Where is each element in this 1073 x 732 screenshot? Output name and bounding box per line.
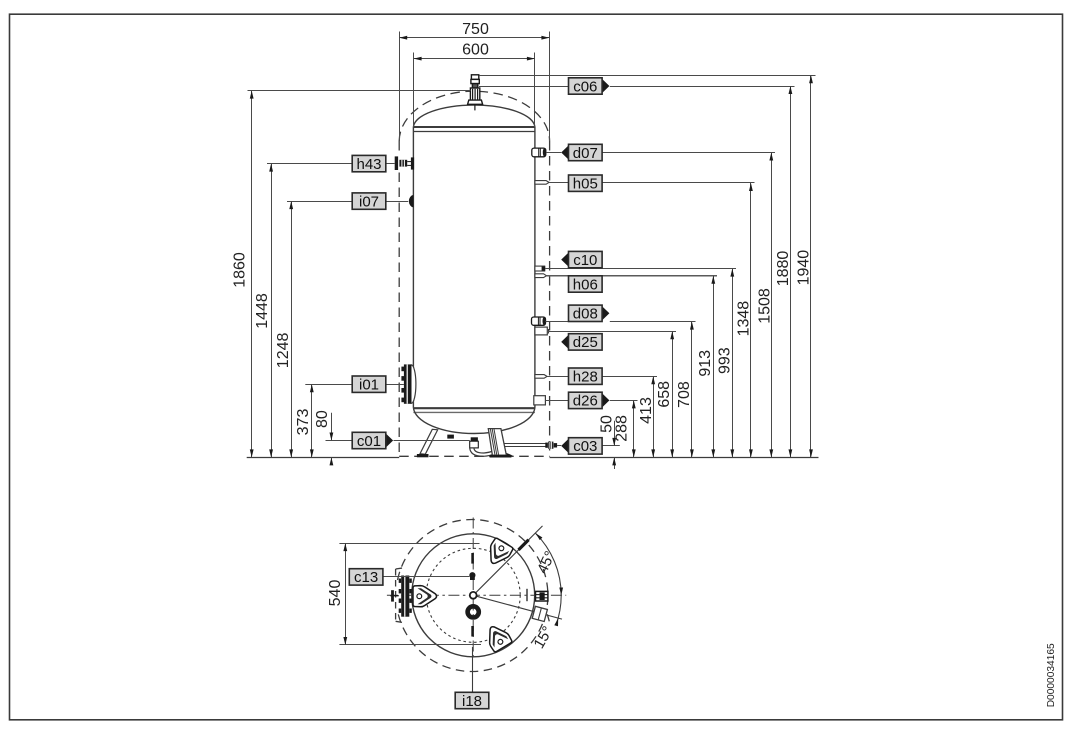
- drain i18 ring: [468, 606, 479, 617]
- sensor well h28: [535, 375, 547, 379]
- label h05: [569, 175, 603, 191]
- dim 600: [413, 53, 415, 127]
- fitting i07 (knob on left wall): [409, 195, 414, 208]
- svg-text:i18: i18: [462, 693, 482, 710]
- svg-text:1860: 1860: [232, 252, 249, 288]
- fitting d26 (square socket): [534, 396, 546, 405]
- center hub: [470, 592, 477, 599]
- svg-text:c10: c10: [573, 252, 597, 269]
- left leg: [420, 429, 438, 454]
- dim 373: [311, 384, 313, 457]
- dim 658: [672, 331, 674, 457]
- front foot pad: [490, 455, 512, 458]
- label i01: [352, 376, 386, 392]
- right fittings on horizontal centerline: [526, 589, 528, 601]
- insulation dashed outline (front view): [399, 91, 470, 141]
- insulation notch around flange: [395, 569, 397, 621]
- svg-text:1508: 1508: [756, 288, 773, 324]
- svg-text:708: 708: [676, 381, 693, 408]
- line h05: [549, 182, 754, 184]
- line c06 to 1880 dim: [479, 86, 569, 88]
- dim 993: [732, 269, 734, 458]
- svg-text:50: 50: [599, 415, 616, 433]
- svg-text:d25: d25: [573, 334, 598, 351]
- foot bottom-right: [482, 622, 512, 653]
- tank top band (double line): [413, 126, 535, 128]
- horizontal centerline: [387, 594, 566, 596]
- thick mark on 45deg line: [519, 540, 529, 550]
- dim 708: [691, 322, 693, 458]
- tank body walls: [412, 127, 414, 408]
- bottom view: insulation dashed circle: [398, 520, 548, 672]
- line i18: [472, 647, 474, 692]
- label d08: [602, 306, 610, 321]
- fitting d07 (socket on right wall): [532, 148, 546, 157]
- svg-text:d07: d07: [573, 145, 598, 162]
- dim 540: [339, 543, 479, 545]
- fitting h43 (flange+nut on left): [395, 156, 398, 170]
- svg-text:373: 373: [295, 409, 312, 436]
- svg-text:993: 993: [717, 347, 734, 374]
- line c01: [326, 440, 353, 442]
- drain valve block: [471, 437, 478, 441]
- line c03: [557, 445, 561, 447]
- flange i01 (left wall): [407, 365, 416, 403]
- line h06: [547, 275, 718, 277]
- svg-text:d08: d08: [573, 306, 598, 323]
- foot top-right: [483, 537, 513, 568]
- line d08: [546, 321, 569, 323]
- svg-text:h28: h28: [573, 369, 598, 386]
- svg-text:1880: 1880: [775, 251, 792, 287]
- tilted square fitting on 15deg line: [532, 606, 547, 621]
- label i18: [455, 692, 489, 708]
- svg-text:h06: h06: [573, 276, 598, 293]
- angle arc 15deg: [556, 595, 561, 625]
- vertical centerline: [472, 518, 474, 661]
- dim 1508: [771, 153, 773, 458]
- rear foot (dark wedge): [495, 452, 513, 456]
- svg-text:c06: c06: [573, 78, 597, 95]
- label c01: [385, 433, 393, 448]
- line i01: [305, 384, 404, 386]
- svg-text:c03: c03: [573, 438, 597, 455]
- label c03: [561, 438, 569, 453]
- sensor well h06: [535, 274, 547, 278]
- fitting d25 (square socket): [535, 327, 547, 335]
- front leg channel: [488, 429, 506, 456]
- label d26: [602, 393, 610, 408]
- drain elbow pipe (U-bend): [470, 445, 505, 456]
- tick above c13 knob: [471, 553, 474, 564]
- svg-text:413: 413: [638, 397, 655, 424]
- c03 valve fitting: [545, 443, 548, 448]
- line to 1940 dim from fitting top: [479, 75, 816, 77]
- label c10: [561, 252, 569, 267]
- svg-text:d26: d26: [573, 393, 598, 410]
- dim 50: [614, 421, 616, 446]
- line c10: [545, 268, 736, 270]
- svg-text:600: 600: [462, 42, 489, 59]
- svg-text:i07: i07: [359, 193, 379, 210]
- dim 1448: [271, 164, 273, 458]
- label c13: [349, 569, 383, 585]
- svg-text:913: 913: [697, 350, 714, 377]
- line h28: [547, 376, 657, 378]
- dim 913: [713, 276, 715, 458]
- tank bottom band (double line): [413, 407, 535, 409]
- drain socket under tank: [447, 435, 454, 439]
- fitting d08 (socket on right wall): [532, 317, 546, 325]
- label i07: [352, 193, 386, 209]
- line d25: [548, 331, 676, 333]
- svg-text:540: 540: [327, 580, 344, 607]
- dimension baseline (floor): [247, 457, 400, 459]
- label h06: [569, 276, 603, 292]
- svg-text:c13: c13: [354, 569, 378, 586]
- svg-text:288: 288: [614, 415, 631, 442]
- dim 750: [399, 32, 401, 142]
- svg-text:658: 658: [656, 381, 673, 408]
- svg-text:1448: 1448: [254, 293, 271, 329]
- dim 1940: [810, 75, 812, 457]
- flange assembly left (bottom view): [401, 576, 409, 617]
- svg-text:D0000034165: D0000034165: [1046, 643, 1057, 707]
- label c06: [602, 78, 610, 93]
- dim 1880: [790, 86, 792, 457]
- vent fitting c06 on top: [468, 75, 483, 105]
- line d07: [546, 152, 561, 154]
- label d25: [561, 334, 569, 349]
- label h43: [352, 155, 386, 171]
- radial line 45deg: [473, 526, 542, 595]
- angle arc 45deg: [535, 533, 561, 595]
- svg-text:c01: c01: [357, 433, 381, 450]
- tank bottom dome: [413, 408, 535, 434]
- left foot pad: [417, 454, 429, 457]
- radial line 15deg: [473, 595, 562, 619]
- svg-text:h05: h05: [573, 176, 598, 193]
- line c13: [383, 576, 469, 578]
- label h28: [569, 368, 603, 384]
- line h43: [267, 163, 395, 165]
- svg-text:750: 750: [462, 21, 489, 38]
- foot left: [413, 586, 437, 607]
- fitting c10 (stub with sensor): [535, 266, 545, 271]
- tick below ring: [471, 626, 474, 637]
- tank top dome: [413, 105, 535, 127]
- dim 288: [633, 400, 635, 457]
- dim 1860: [251, 91, 253, 458]
- dim 80: [331, 413, 333, 441]
- c13 knob: [469, 572, 475, 578]
- label d07: [561, 145, 569, 160]
- horizontal drain pipe to c03: [501, 443, 547, 445]
- svg-text:h43: h43: [356, 156, 381, 173]
- dim 413: [653, 376, 655, 457]
- svg-text:80: 80: [314, 410, 331, 428]
- bolt/dotted circle: [426, 548, 520, 642]
- dim 1348: [750, 183, 752, 457]
- sensor well h05: [535, 181, 549, 185]
- svg-text:i01: i01: [359, 377, 379, 394]
- line i07: [287, 201, 408, 203]
- svg-text:1248: 1248: [275, 333, 292, 369]
- line 1860 (top of insulation): [248, 90, 471, 92]
- line d26: [545, 400, 568, 402]
- tank circle: [412, 534, 535, 657]
- svg-text:1940: 1940: [796, 250, 813, 286]
- dim 1248: [291, 201, 293, 457]
- svg-text:1348: 1348: [736, 301, 753, 337]
